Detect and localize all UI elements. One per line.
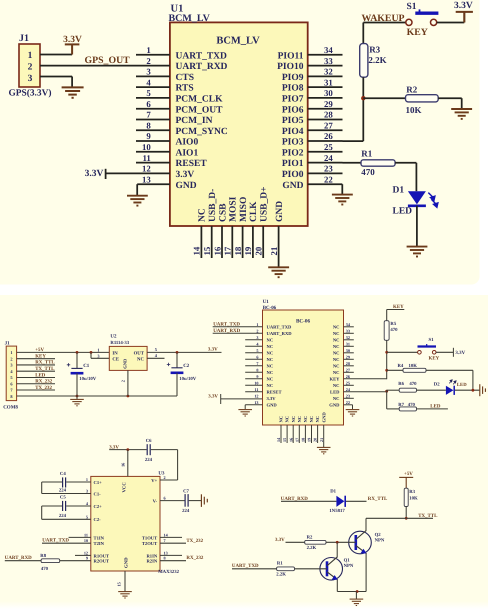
resistor R8 (470): [41, 559, 60, 563]
svg-text:BC-06: BC-06: [296, 319, 311, 325]
resistor R4 (10K): [403, 368, 426, 372]
wire to U3 pin3: [42, 493, 91, 495]
svg-text:25: 25: [324, 142, 333, 152]
wire rail to ground: [355, 592, 357, 599]
capacitor C4 (224): [63, 477, 66, 487]
BC-06 pin 16 (NC): [288, 416, 296, 443]
ground: [346, 410, 360, 416]
wire C1 to rail: [76, 373, 78, 396]
resistor R1 (470): [361, 160, 395, 166]
3.3V port bar: [220, 394, 222, 404]
svg-text:KEY: KEY: [330, 377, 341, 382]
svg-text:R7: R7: [398, 402, 404, 408]
U1 pin 15 (USB_D-): [202, 189, 218, 258]
svg-text:R8: R8: [40, 553, 46, 559]
svg-text:20: 20: [313, 438, 318, 442]
svg-text:7: 7: [256, 361, 258, 366]
BC-06 pin 17 (NC): [294, 416, 302, 443]
svg-text:PIO9: PIO9: [282, 73, 304, 83]
U3 pin 11 (T1IN) name+number: [84, 532, 105, 540]
svg-text:1: 1: [256, 322, 258, 327]
svg-text:LED: LED: [393, 207, 413, 217]
svg-text:10u/10V: 10u/10V: [79, 376, 96, 382]
svg-text:29: 29: [324, 99, 333, 109]
svg-text:6: 6: [146, 99, 151, 109]
svg-text:KEY: KEY: [429, 356, 440, 362]
svg-text:NC: NC: [267, 357, 274, 362]
svg-text:D2: D2: [434, 382, 440, 388]
svg-text:3: 3: [28, 74, 33, 84]
svg-text:PIO8: PIO8: [282, 84, 304, 94]
BC-06 pin 13 (GND): [245, 400, 277, 409]
junction CE tap: [90, 351, 93, 354]
ground: [332, 195, 353, 205]
svg-text:2.2K: 2.2K: [307, 545, 317, 551]
wire S1 to 3.3V: [437, 22, 465, 24]
svg-text:PIO1: PIO1: [282, 159, 304, 169]
ground: [268, 267, 289, 277]
svg-text:LED: LED: [330, 390, 340, 395]
module U1 BC-06 body: [263, 310, 344, 425]
svg-text:6: 6: [256, 354, 258, 359]
svg-text:PIO11: PIO11: [278, 51, 304, 61]
svg-text:23: 23: [324, 164, 333, 174]
svg-text:PIO2: PIO2: [282, 148, 304, 158]
wire S1 to 3.3V port: [436, 351, 453, 353]
svg-text:R1: R1: [277, 561, 283, 567]
svg-text:C2+: C2+: [94, 504, 103, 509]
svg-text:NC: NC: [333, 331, 340, 336]
svg-text:2: 2: [10, 356, 12, 361]
power bar: [65, 44, 80, 54]
junction pin24/R6: [385, 390, 388, 393]
BC-06 pin 25 (NC): [333, 380, 354, 388]
svg-text:30: 30: [324, 88, 333, 98]
svg-text:26: 26: [346, 374, 350, 379]
svg-text:8: 8: [164, 556, 166, 561]
svg-text:RX_232: RX_232: [186, 555, 204, 561]
svg-text:224: 224: [145, 457, 153, 463]
U1 pin 12 (3.3V): [85, 164, 195, 180]
svg-text:LED: LED: [35, 372, 46, 378]
svg-text:BCM_LV: BCM_LV: [169, 13, 211, 24]
svg-text:27: 27: [324, 120, 333, 130]
transistor Q2 NPN: [349, 531, 372, 554]
svg-text:NC: NC: [267, 377, 274, 382]
svg-text:MOSI: MOSI: [229, 196, 239, 222]
wire +5V rail COM8 pin1 to U2 IN: [17, 351, 110, 353]
svg-text:UART_RXD: UART_RXD: [176, 62, 228, 72]
svg-text:RX_TTL: RX_TTL: [35, 360, 55, 366]
wire COM8 pin 5 stub: [17, 376, 55, 378]
svg-text:R6: R6: [398, 381, 404, 387]
wire R8 to U3 pin9: [60, 560, 91, 562]
svg-text:16: 16: [288, 438, 293, 442]
svg-text:2.2K: 2.2K: [368, 55, 386, 65]
svg-text:GND: GND: [329, 403, 340, 408]
svg-text:7: 7: [146, 110, 151, 120]
svg-text:UART_TXD: UART_TXD: [213, 321, 240, 327]
U1 pin 30 (PIO7): [282, 88, 343, 104]
svg-text:TX_232: TX_232: [186, 538, 203, 544]
switch S1 (bottom): [418, 344, 437, 354]
U3 pin 3 (C1-) name+number: [86, 489, 101, 497]
svg-text:CLK: CLK: [249, 201, 259, 222]
BC-06 pin 10 (NC): [245, 380, 273, 388]
svg-text:224: 224: [59, 487, 67, 493]
BC-06 pin 34 (NC): [333, 322, 354, 330]
svg-text:T1IN: T1IN: [94, 535, 105, 540]
svg-text:11: 11: [142, 153, 150, 163]
svg-text:12: 12: [254, 393, 258, 398]
svg-text:V-: V-: [153, 499, 158, 504]
U1 pin 27 (PIO4): [282, 120, 343, 136]
svg-text:R4: R4: [398, 363, 404, 369]
svg-text:CE: CE: [112, 356, 119, 362]
svg-text:5: 5: [256, 348, 258, 353]
wire C5 to U3 pin4: [66, 505, 91, 507]
resistor R3 (2.2K): [360, 44, 368, 78]
resistor R5 (470): [384, 321, 389, 341]
svg-text:NC: NC: [291, 416, 296, 423]
svg-text:LED: LED: [457, 382, 467, 388]
svg-text:LED: LED: [430, 404, 441, 410]
svg-text:PIO3: PIO3: [282, 138, 304, 148]
wire D2 to ground: [455, 389, 479, 391]
U3 pin 5 (C2-) name+number: [86, 514, 101, 522]
svg-text:3: 3: [256, 335, 258, 340]
svg-text:9: 9: [86, 556, 88, 561]
svg-text:3.3V: 3.3V: [267, 396, 277, 401]
svg-text:C2-: C2-: [94, 517, 102, 522]
ground at rail: [70, 399, 84, 405]
wire ground rail (COM8 pin8): [17, 395, 177, 397]
svg-text:GPS_OUT: GPS_OUT: [85, 55, 131, 66]
U1 pin 1 (UART_TXD): [136, 45, 227, 61]
svg-text:1: 1: [146, 45, 150, 55]
svg-text:2: 2: [28, 63, 33, 73]
svg-text:5: 5: [146, 88, 151, 98]
svg-text:R1: R1: [361, 148, 372, 158]
BC-06 pin 1 (UART_TXD): [213, 322, 292, 330]
U1 pin 18 (MISO): [233, 197, 249, 258]
svg-text:C6: C6: [146, 438, 152, 444]
svg-text:2.2K: 2.2K: [276, 572, 286, 578]
wire J1 pin1 to 3.3V: [40, 54, 72, 56]
LED D2: [446, 380, 456, 395]
svg-text:224: 224: [182, 508, 190, 514]
connector J1 COM8: [6, 346, 16, 401]
svg-text:D1: D1: [393, 185, 405, 195]
svg-text:10u/10V: 10u/10V: [179, 376, 196, 382]
resistor R6 (470): [399, 388, 416, 392]
svg-text:NPN: NPN: [375, 537, 385, 543]
BC-06 pin 32 (NC): [333, 335, 354, 343]
svg-text:RX_TTL: RX_TTL: [368, 496, 388, 502]
svg-text:R2: R2: [307, 534, 313, 540]
svg-text:NC: NC: [315, 416, 320, 423]
ground (rotated): [201, 494, 207, 507]
svg-text:21: 21: [269, 247, 279, 256]
U3 pin 14 (T1OUT) name+number: [142, 532, 169, 540]
wire pin24 to R1: [343, 162, 362, 164]
wire R3 to PIO3 pin 26: [362, 77, 364, 141]
svg-text:NC: NC: [297, 416, 302, 423]
svg-text:14: 14: [192, 246, 202, 255]
svg-text:UART_RXD: UART_RXD: [213, 328, 240, 334]
svg-text:NC: NC: [333, 396, 340, 401]
junction emitter rail: [356, 590, 359, 593]
svg-text:10K: 10K: [409, 363, 418, 369]
svg-text:UART_TXD: UART_TXD: [267, 325, 293, 330]
U3 pin 6 (V-) name+number: [153, 496, 166, 504]
svg-text:CTS: CTS: [176, 73, 194, 83]
BC-06 pin 7 (NC): [245, 361, 273, 369]
svg-text:15: 15: [282, 438, 287, 442]
wire +5V to C1: [76, 352, 78, 368]
+5V power bar (bottom): [399, 477, 413, 488]
svg-text:C2: C2: [183, 363, 190, 369]
3.3V port at S1 (bottom): [452, 348, 454, 357]
svg-text:28: 28: [346, 361, 350, 366]
U1 pin 34 (PIO11): [278, 45, 343, 61]
svg-text:22: 22: [346, 400, 350, 405]
U3 pin 4 (C2+) name+number: [86, 501, 102, 509]
svg-text:R2OUT: R2OUT: [94, 559, 110, 564]
wire R3 to TX_TTL row: [405, 507, 407, 519]
regulator U2 R1114-33: [109, 346, 147, 370]
svg-text:3: 3: [146, 67, 151, 77]
svg-text:GND: GND: [321, 412, 326, 423]
svg-text:NC: NC: [267, 383, 274, 388]
BC-06 pin 22 (GND): [329, 400, 352, 409]
wire 3.3V to R2: [286, 541, 305, 543]
svg-text:R1114-33: R1114-33: [110, 340, 129, 346]
ground: [317, 447, 331, 453]
U1 pin 25 (PIO2): [282, 142, 343, 158]
top schematic canvas: [0, 0, 480, 285]
junction R3/R2: [361, 96, 365, 100]
svg-text:Q1: Q1: [344, 558, 351, 564]
svg-text:UART_RXD: UART_RXD: [267, 331, 293, 336]
junction C1+ on +5V rail: [76, 351, 79, 354]
svg-text:RESET: RESET: [267, 390, 282, 395]
svg-text:19: 19: [307, 438, 312, 442]
svg-text:USB_D-: USB_D-: [208, 189, 218, 222]
wire D1 to RX_TTL: [346, 500, 367, 502]
BC-06 pin 18 (NC): [301, 416, 309, 443]
U1 pin 28 (PIO5): [282, 110, 343, 126]
svg-text:NC: NC: [267, 351, 274, 356]
svg-text:16: 16: [212, 246, 222, 255]
U1 pin 20 (USB_D+): [254, 186, 270, 258]
svg-text:V+: V+: [151, 478, 157, 483]
wire COM8 pin 4 stub: [17, 370, 55, 372]
svg-text:NC: NC: [198, 208, 208, 222]
U1 pin 17 (MOSI): [223, 196, 239, 258]
wire R7 to LED label: [417, 408, 448, 410]
bottom schematic canvas: [0, 295, 488, 609]
svg-text:S1: S1: [407, 2, 417, 12]
op chip U1 BCM_LV body: [170, 22, 308, 226]
svg-text:28: 28: [324, 110, 333, 120]
wire UART_RXD to R8: [5, 560, 41, 562]
BC-06 pin 11 (RESET): [245, 387, 281, 395]
svg-text:NC: NC: [333, 338, 340, 343]
wire 3.3V stem: [463, 12, 465, 23]
U1 pin 22 (GND): [282, 174, 342, 194]
svg-text:T2IN: T2IN: [94, 541, 105, 546]
wire to R4: [387, 369, 403, 371]
wire COM8 pin 6 stub: [17, 383, 55, 385]
wire to U3 pin5: [42, 518, 91, 520]
wire 3.3V port to BC-06 pin12: [221, 398, 263, 400]
svg-text:NC: NC: [285, 416, 290, 423]
ground: [238, 410, 252, 416]
svg-text:1: 1: [28, 51, 33, 61]
U3 pin 10 (T2IN) name+number: [84, 538, 105, 546]
wire C5 left: [42, 505, 62, 507]
wire U3 pin6 V- to C7: [160, 500, 185, 502]
svg-text:3.3V: 3.3V: [455, 350, 465, 356]
U1 pin 8 (PCM_SYNC): [136, 120, 228, 136]
BC-06 pin 19 (NC): [307, 416, 315, 443]
svg-text:31: 31: [346, 341, 350, 346]
wire COM8 pin 3 stub: [17, 364, 55, 366]
svg-text:22: 22: [324, 174, 333, 184]
svg-text:2: 2: [121, 380, 126, 382]
svg-text:33: 33: [346, 328, 350, 333]
svg-text:7: 7: [164, 538, 166, 543]
svg-text:25: 25: [346, 380, 350, 385]
svg-text:2: 2: [164, 475, 166, 480]
U1 pin 10 (AIO1): [136, 142, 198, 158]
svg-text:PCM_CLK: PCM_CLK: [176, 95, 224, 105]
svg-text:32: 32: [324, 67, 333, 77]
U3 pin 2 (V+) name+number: [151, 475, 165, 483]
BC-06 pin 15 (NC): [282, 416, 290, 443]
resistor R7 (470): [399, 407, 416, 411]
wire down to D2 cathode: [472, 370, 474, 390]
svg-text:27: 27: [346, 367, 350, 372]
svg-text:PCM_SYNC: PCM_SYNC: [176, 127, 228, 137]
svg-text:18: 18: [233, 246, 243, 255]
svg-text:T1OUT: T1OUT: [142, 535, 157, 540]
svg-text:GND: GND: [275, 201, 285, 222]
svg-text:+5V: +5V: [35, 347, 44, 353]
svg-text:NC: NC: [279, 416, 284, 423]
svg-text:13: 13: [164, 550, 168, 555]
wire 3.3V to C6: [109, 449, 146, 451]
svg-text:NC: NC: [333, 370, 340, 375]
U3 pin 8 (R2IN) name+number: [146, 556, 165, 564]
U1 pin 33 (PIO10): [277, 56, 342, 72]
wire down to Q1 collector: [336, 542, 338, 557]
wire R4 to corner: [426, 369, 473, 371]
svg-text:20: 20: [254, 246, 264, 255]
svg-text:NC: NC: [303, 416, 308, 423]
capacitor C7 (224): [185, 494, 188, 507]
wire VCC pin16: [127, 450, 129, 477]
connector J1 GPS: [19, 44, 40, 87]
wire KEY label: [387, 309, 405, 311]
BC-06 pin 30 (NC): [333, 348, 354, 356]
svg-text:17: 17: [223, 246, 233, 255]
wire 3.3V to C2: [176, 352, 178, 367]
BC-06 pin 27 (NC): [333, 367, 354, 375]
wire R6 to D2: [417, 389, 446, 391]
svg-text:NPN: NPN: [344, 563, 354, 569]
BC-06 pin 23 (NC): [333, 393, 354, 401]
svg-text:2: 2: [256, 328, 258, 333]
U1 pin 11 (RESET): [136, 153, 207, 169]
wire down to LED D1: [415, 163, 417, 191]
wire U3 pin2 V+: [160, 479, 178, 481]
BC-06 pin 20 (NC): [313, 416, 321, 443]
wire pin26 extension: [343, 140, 364, 142]
wire U2 NC stub: [147, 357, 164, 359]
U1 pin 3 (CTS): [136, 67, 194, 83]
svg-text:1: 1: [97, 348, 99, 353]
U1 pin 6 (PCM_OUT): [136, 99, 223, 115]
svg-text:3.3V: 3.3V: [176, 170, 195, 180]
svg-text:U1: U1: [263, 299, 270, 305]
svg-text:GND: GND: [282, 181, 303, 191]
wire emitter rail: [337, 591, 366, 593]
svg-text:NC: NC: [267, 344, 274, 349]
svg-text:3: 3: [86, 489, 88, 494]
svg-text:21: 21: [319, 438, 324, 442]
svg-text:OUT: OUT: [134, 351, 145, 357]
capacitor C2 (10u/10V): [171, 368, 184, 373]
resistor R1 (2.2K, bottom): [277, 567, 295, 571]
svg-text:GND: GND: [176, 181, 197, 191]
svg-text:C5: C5: [60, 495, 66, 501]
svg-text:BC-06: BC-06: [263, 305, 277, 311]
ground: [127, 196, 148, 206]
svg-text:C4: C4: [60, 471, 66, 477]
wire U3 pin12 stub: [75, 554, 91, 556]
svg-text:NC: NC: [267, 338, 274, 343]
ground: [118, 592, 132, 598]
svg-text:S1: S1: [429, 337, 435, 343]
svg-text:11: 11: [255, 387, 259, 392]
wire LED to ground: [416, 206, 418, 247]
wire WAKEUP to S1: [363, 22, 405, 24]
U1 pin 26 (PIO3): [282, 131, 343, 147]
svg-text:470: 470: [408, 402, 416, 408]
BC-06 pin 4 (NC): [245, 341, 273, 349]
svg-text:R5: R5: [390, 321, 396, 327]
U3 pin 7 (T2OUT) name+number: [142, 538, 166, 546]
BC-06 pin 3 (NC): [245, 335, 273, 343]
svg-text:3.3V: 3.3V: [275, 537, 285, 543]
svg-text:PCM_IN: PCM_IN: [176, 116, 213, 126]
wire GPS_OUT (J1 pin2 to U1 pin2): [40, 65, 170, 67]
BC-06 pin 8 (NC): [245, 367, 273, 375]
wire COM8 pin 7 stub: [17, 389, 55, 391]
capacitor C5 (224): [63, 501, 66, 511]
svg-text:PIO6: PIO6: [282, 105, 304, 115]
svg-text:TX_TTL: TX_TTL: [35, 366, 55, 372]
svg-text:11: 11: [84, 532, 88, 537]
junction R3/TX_TTL: [405, 517, 408, 520]
chip U3 MAX3232 body: [91, 476, 160, 571]
junction R4 row: [385, 369, 388, 372]
wire COM8 pin 2 stub: [17, 358, 55, 360]
svg-text:1: 1: [86, 477, 88, 482]
svg-text:NC: NC: [333, 383, 340, 388]
